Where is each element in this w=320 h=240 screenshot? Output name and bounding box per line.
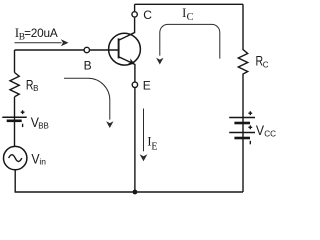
svg-text:=20uA: =20uA <box>24 26 58 40</box>
svg-text:E: E <box>151 141 157 152</box>
svg-text:BB: BB <box>38 122 49 131</box>
svg-text:C: C <box>143 8 152 22</box>
svg-text:B: B <box>33 84 38 93</box>
svg-text:C: C <box>263 60 269 69</box>
svg-text:CC: CC <box>264 130 276 139</box>
svg-text:C: C <box>187 12 194 23</box>
svg-text:B: B <box>84 59 92 73</box>
svg-text:in: in <box>39 156 46 166</box>
svg-text:E: E <box>143 78 151 92</box>
